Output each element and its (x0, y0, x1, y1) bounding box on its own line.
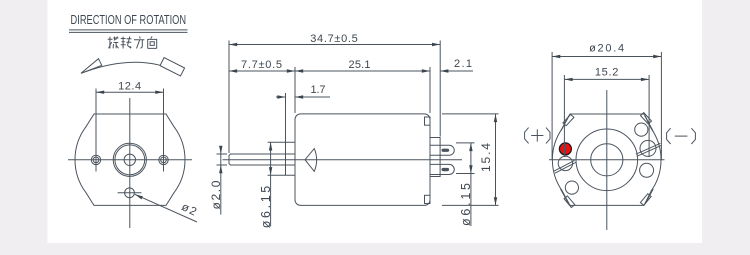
svg-text:15.2: 15.2 (595, 67, 619, 79)
front view vertical centerline (129, 98, 131, 228)
end cap (430, 138, 440, 177)
svg-text:ø6.15: ø6.15 (259, 186, 273, 229)
dimension o6.15 right line (470, 143, 472, 226)
bearing inner circle (591, 144, 623, 176)
minus polarity symbol (667, 128, 696, 144)
front right mounting hole (159, 155, 168, 164)
red positive marker dot (559, 143, 571, 155)
chinese label 旋转方向 (drawn strokes) (108, 36, 157, 48)
chamfer inner line top-right (645, 116, 653, 132)
svg-text:34.7±0.5: 34.7±0.5 (310, 33, 358, 45)
svg-text:7.7±0.5: 7.7±0.5 (241, 59, 282, 71)
lower terminal (430, 164, 454, 174)
front bushing boss (286, 142, 296, 175)
upper terminal (430, 145, 454, 155)
bearing boss outer circle (576, 129, 638, 191)
dimension o20.4 line (552, 56, 661, 58)
corner notch top-left (563, 114, 574, 125)
right terminal circle (640, 140, 656, 156)
front center boss inner ring (115, 145, 145, 175)
char fang (134, 37, 144, 49)
back view horizontal centerline (549, 159, 665, 161)
left terminal circle (558, 156, 572, 170)
dimension 12.4 line (96, 91, 164, 93)
chamfer inner line bottom-left (561, 189, 569, 204)
cap clip top (425, 117, 431, 125)
bottom hole cross tick (118, 192, 142, 194)
dimension 15.2 line (564, 78, 649, 80)
front center boss outer ring (113, 143, 146, 176)
chamfer inner line bottom-right (645, 189, 653, 204)
upper terminal slot (442, 149, 450, 152)
dimension 34.7 line (229, 44, 440, 46)
dimension 7.7 / 25.1 line (229, 70, 430, 72)
ext line body front face (294, 67, 296, 113)
dimension 1.7 lines and arrows (276, 96, 330, 98)
motor shaft (229, 154, 295, 165)
ext line shaft tip (228, 41, 230, 154)
corner notch top-right (641, 113, 652, 124)
svg-text:2.1: 2.1 (454, 58, 472, 70)
dimension 15.4 ext lines (442, 114, 499, 205)
svg-text:15.4: 15.4 (479, 143, 493, 172)
dimension o20.4 ext lines (552, 52, 661, 160)
cap clip bottom (425, 195, 431, 203)
back view vertical centerline (606, 90, 608, 230)
front left mounting hole (91, 155, 100, 164)
right terminal hatch (636, 143, 661, 156)
svg-text:DIRECTION OF ROTATION: DIRECTION OF ROTATION (71, 12, 187, 27)
dimension 15.4 line (495, 114, 497, 205)
dimension 12.4 extension lines (96, 89, 164, 172)
char xuan (108, 37, 119, 49)
svg-text:ø2.0: ø2.0 (209, 180, 223, 209)
front shaft hole (124, 154, 135, 165)
rotation direction curved arrow arc (81, 62, 160, 73)
internal cone mark (305, 149, 317, 172)
char zhuan (121, 37, 132, 49)
dimension o6.15 left ext lines (268, 142, 286, 175)
chamfer inner line top-left (561, 116, 569, 132)
corner notch bottom-right (640, 194, 651, 206)
hole bottom-left (565, 181, 578, 194)
svg-text:1.7: 1.7 (311, 84, 326, 96)
ext line cap right (439, 41, 441, 137)
hole bottom-right (640, 163, 654, 177)
back view outline (552, 114, 661, 205)
ext line body rear face (429, 67, 431, 113)
dimension o6.15 right ext lines (456, 143, 475, 174)
dimension 2.1 tail line and arrow (440, 70, 473, 72)
svg-text:12.4: 12.4 (118, 81, 141, 93)
corner notch bottom-left (564, 196, 575, 208)
svg-text:ø20.4: ø20.4 (589, 43, 624, 55)
motor body (side) (295, 114, 430, 205)
lower terminal slot (442, 168, 450, 171)
front view body outline (75, 114, 185, 205)
title double underline (69, 30, 188, 33)
left terminal hatch (554, 160, 576, 173)
front bottom hole (o2) (125, 188, 135, 198)
plus polarity symbol (525, 128, 550, 144)
ext line boss left for 1.7 (285, 93, 287, 142)
front view horizontal centerline (68, 159, 192, 161)
dimension o2.0 ext lines (217, 154, 228, 165)
dimension o6.15 left line (270, 142, 272, 226)
leader line for o2 (135, 194, 197, 222)
hole top-right (635, 123, 648, 136)
rotation arrow tail flag (rotated rectangle) (160, 58, 185, 76)
rotation arrow head (open triangle) (81, 59, 102, 74)
dimension o2.0 line (220, 147, 222, 215)
dimension 15.2 ext lines (564, 75, 649, 157)
char xiang (148, 36, 157, 48)
svg-text:25.1: 25.1 (349, 59, 371, 71)
middle view centerline (223, 159, 463, 161)
svg-text:ø6.15: ø6.15 (459, 183, 473, 226)
